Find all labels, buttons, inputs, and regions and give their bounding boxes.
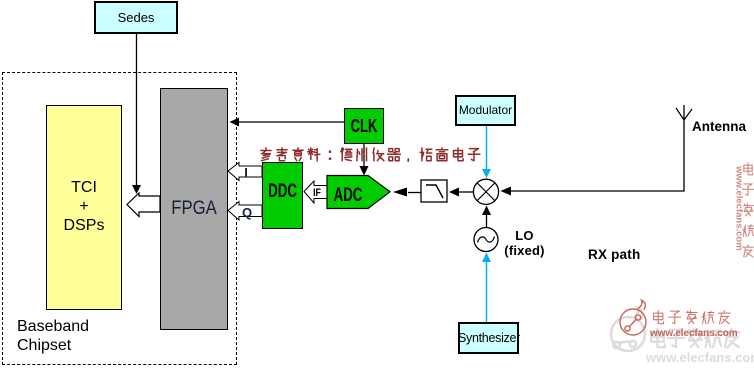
svg-text:www.elecfans.com: www.elecfans.com: [645, 350, 754, 365]
svg-text:www.elecfans.com: www.elecfans.com: [734, 165, 745, 251]
